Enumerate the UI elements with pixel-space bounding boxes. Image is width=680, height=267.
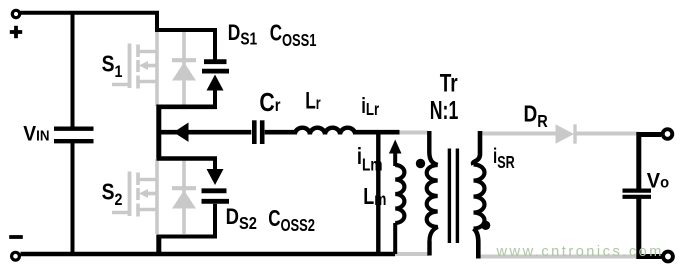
svg-text:www.cntronics.com: www.cntronics.com bbox=[496, 244, 664, 260]
svg-text:N:1: N:1 bbox=[430, 95, 458, 124]
svg-text:VIN: VIN bbox=[23, 123, 49, 146]
svg-text:Tr: Tr bbox=[440, 69, 458, 97]
